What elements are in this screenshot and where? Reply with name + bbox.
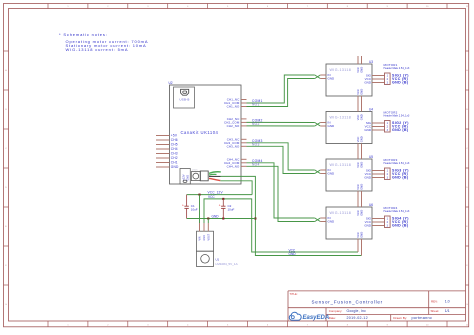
svg-text:NO4: NO4 bbox=[252, 163, 260, 167]
svg-text:VCC_12V: VCC_12V bbox=[208, 190, 224, 194]
svg-text:GND: GND bbox=[359, 232, 363, 238]
svg-text:VCC: VCC bbox=[356, 184, 360, 190]
svg-text:VCC: VCC bbox=[356, 232, 360, 238]
svg-text:+: + bbox=[219, 204, 221, 208]
svg-text:CH3_NO: CH3_NO bbox=[227, 144, 240, 148]
svg-text:2019-02-12: 2019-02-12 bbox=[347, 316, 368, 320]
svg-text:VCC: VCC bbox=[356, 115, 360, 121]
wire NO1 bbox=[247, 79, 315, 107]
svg-text:VCC: VCC bbox=[356, 137, 360, 143]
svg-text:Sensor_Fusion_Controller: Sensor_Fusion_Controller bbox=[312, 299, 383, 304]
svg-text:Header Male 2.54_1x3: Header Male 2.54_1x3 bbox=[384, 66, 410, 70]
svg-text:CH3: CH3 bbox=[171, 152, 178, 156]
svg-text:G: G bbox=[5, 304, 7, 306]
svg-text:GND (B): GND (B) bbox=[392, 224, 409, 228]
wire NO3 bbox=[247, 146, 315, 173]
svg-text:TITLE:: TITLE: bbox=[290, 292, 298, 296]
svg-text:Header Male 2.54_1x3: Header Male 2.54_1x3 bbox=[384, 114, 410, 118]
svg-text:Header Male 2.54_1x3: Header Male 2.54_1x3 bbox=[384, 161, 410, 165]
svg-text:CH4_NO: CH4_NO bbox=[227, 164, 240, 168]
svg-text:EasyEDA: EasyEDA bbox=[303, 315, 330, 321]
svg-text:WIG-13118: WIG-13118 bbox=[330, 116, 352, 120]
svg-text:USB-B: USB-B bbox=[179, 98, 189, 102]
svg-text:NO3: NO3 bbox=[252, 143, 260, 147]
relay board U2 body bbox=[170, 85, 242, 184]
svg-text:REV:: REV: bbox=[431, 300, 438, 304]
svg-text:Google, Inc: Google, Inc bbox=[347, 309, 367, 313]
svg-text:NO2: NO2 bbox=[252, 122, 260, 126]
power chain wires between modules bbox=[358, 96, 362, 207]
svg-text:CH4: CH4 bbox=[171, 147, 178, 151]
svg-text:GND: GND bbox=[359, 67, 363, 73]
wire COM3 bbox=[247, 143, 315, 170]
driver module U6 body bbox=[326, 207, 372, 239]
svg-text:GND: GND bbox=[289, 252, 297, 256]
svg-text:GND: GND bbox=[359, 136, 363, 142]
svg-text:Sheet:: Sheet: bbox=[431, 309, 440, 313]
svg-text:GND: GND bbox=[364, 128, 372, 132]
wire net labels COM/NO bbox=[252, 99, 263, 166]
terminal wire CH2 (green lead) bbox=[209, 173, 217, 176]
U6 input pin cross bbox=[315, 218, 326, 222]
svg-text:GND: GND bbox=[328, 77, 336, 81]
svg-text:U6: U6 bbox=[369, 203, 373, 207]
U5 output pins to header bbox=[372, 171, 385, 178]
svg-text:WIG-13118: WIG-13118 bbox=[330, 211, 352, 215]
wire VCC rail bbox=[204, 199, 358, 252]
wire GND rail bbox=[187, 218, 256, 220]
U4 input pin cross bbox=[315, 123, 326, 127]
capacitor C1 bbox=[182, 195, 189, 219]
wire COM1 bbox=[247, 75, 315, 103]
svg-text:GND: GND bbox=[203, 235, 206, 241]
capacitor C2 bbox=[219, 199, 226, 219]
U6 output pin labels bbox=[364, 217, 372, 228]
svg-text:* Schematic notes:: * Schematic notes: bbox=[59, 32, 108, 37]
svg-text:GND: GND bbox=[359, 89, 363, 95]
svg-text:1.0: 1.0 bbox=[445, 300, 450, 304]
U2 terminal block bbox=[191, 171, 208, 181]
svg-text:WIG-13118: WIG-13118 bbox=[330, 68, 352, 72]
svg-text:portmannc: portmannc bbox=[412, 316, 433, 320]
wire COM2 bbox=[247, 121, 315, 123]
svg-text:GND: GND bbox=[364, 81, 372, 85]
U2 left pin labels bbox=[171, 134, 179, 170]
svg-text:VCC: VCC bbox=[356, 162, 360, 168]
U5 bottom power pin labels bbox=[356, 184, 364, 190]
U3 input pin cross bbox=[315, 75, 326, 79]
svg-text:GND: GND bbox=[359, 184, 363, 190]
svg-text:VCC: VCC bbox=[356, 89, 360, 95]
U5 top power pin labels bbox=[356, 162, 364, 168]
svg-text:GND: GND bbox=[212, 214, 220, 218]
svg-text:VOUT: VOUT bbox=[207, 233, 210, 240]
junction GND at C2 bbox=[222, 217, 224, 219]
svg-text:GND: GND bbox=[359, 210, 363, 216]
svg-text:GND: GND bbox=[359, 114, 363, 120]
svg-text:1/1: 1/1 bbox=[445, 309, 450, 313]
svg-text:CH1_NO: CH1_NO bbox=[227, 105, 240, 109]
svg-text:LM1084_5V_1A: LM1084_5V_1A bbox=[216, 262, 239, 266]
svg-text:U4: U4 bbox=[369, 108, 373, 112]
U2 right pin labels bbox=[224, 98, 240, 169]
terminal wire +12V (red lead) bbox=[209, 178, 220, 180]
svg-text:WIG-13118: WIG-13118 bbox=[330, 163, 352, 167]
U3 output pins to header bbox=[372, 76, 385, 83]
svg-text:CH6: CH6 bbox=[171, 138, 178, 142]
U2 right relay pins bbox=[241, 100, 247, 167]
svg-text:12VDC: 12VDC bbox=[192, 169, 199, 171]
U6 bottom power stubs to VCC GND bbox=[358, 239, 362, 256]
svg-text:GND: GND bbox=[328, 220, 336, 224]
svg-text:WIG-13118 current: 5mA: WIG-13118 current: 5mA bbox=[66, 47, 129, 52]
schematic notes text bbox=[59, 32, 148, 52]
svg-text:GND: GND bbox=[364, 224, 372, 228]
U4 top power pin labels bbox=[356, 114, 364, 120]
MOTOR3 pin numbers bbox=[387, 170, 389, 180]
svg-text:Header Male 2.54_1x3: Header Male 2.54_1x3 bbox=[384, 209, 410, 213]
junction VCC at C2 bbox=[222, 198, 224, 200]
svg-text:Drawn By:: Drawn By: bbox=[393, 316, 407, 320]
U2 DC power jack bbox=[180, 169, 190, 185]
DC jack pin labels bbox=[182, 174, 190, 180]
terminal wire GND (black lead) bbox=[209, 175, 221, 177]
wire U1 GND stub bbox=[207, 219, 209, 224]
USB-B icon bbox=[181, 89, 189, 95]
svg-text:G: G bbox=[466, 304, 468, 306]
junction VCC_12V at VIN bbox=[198, 194, 200, 196]
svg-text:Company:: Company: bbox=[329, 309, 343, 313]
driver module U4 body bbox=[326, 112, 372, 144]
svg-text:VCC: VCC bbox=[356, 67, 360, 73]
svg-text:+12V: +12V bbox=[182, 174, 186, 180]
svg-text:Date:: Date: bbox=[329, 316, 336, 320]
junction GND at U1 bbox=[207, 217, 209, 219]
MOTOR2 pin numbers bbox=[387, 122, 389, 132]
header MOTOR4 bbox=[385, 216, 391, 228]
svg-text:10uF: 10uF bbox=[191, 208, 198, 212]
svg-text:GND: GND bbox=[186, 175, 190, 181]
U6 top power pin labels bbox=[356, 210, 364, 216]
wire +12V from U2 red lead bbox=[220, 181, 252, 195]
U6 bottom power pin labels bbox=[356, 232, 364, 238]
svg-text:VCC: VCC bbox=[356, 210, 360, 216]
U3 output pin labels bbox=[364, 74, 372, 85]
U5 input pin cross bbox=[315, 170, 326, 174]
junction GND rail bbox=[254, 217, 256, 219]
U4 output pin labels bbox=[364, 121, 372, 132]
svg-text:GND: GND bbox=[328, 124, 336, 128]
svg-text:GND: GND bbox=[364, 176, 372, 180]
svg-text:GND: GND bbox=[171, 165, 179, 169]
svg-text:VIN: VIN bbox=[199, 236, 202, 240]
driver module U5 body bbox=[326, 159, 372, 191]
driver module U3 body bbox=[326, 64, 372, 96]
svg-text:U2: U2 bbox=[169, 81, 173, 85]
svg-text:VCC: VCC bbox=[208, 195, 215, 199]
wire VIN vertical bbox=[199, 195, 201, 223]
U3 bottom power pin labels bbox=[356, 89, 364, 95]
svg-text:GND (B): GND (B) bbox=[392, 128, 409, 132]
header MOTOR1 bbox=[385, 73, 391, 85]
svg-text:10uF: 10uF bbox=[228, 208, 235, 212]
svg-text:CH1: CH1 bbox=[171, 161, 178, 165]
svg-text:CH5: CH5 bbox=[171, 143, 178, 147]
U5 output pin labels bbox=[364, 169, 372, 180]
svg-text:GND: GND bbox=[359, 162, 363, 168]
svg-text:U5: U5 bbox=[369, 155, 373, 159]
U1 pins bbox=[200, 223, 209, 231]
U6 output pins to header bbox=[372, 219, 385, 226]
svg-text:CH2: CH2 bbox=[171, 156, 178, 160]
svg-text:U3: U3 bbox=[369, 60, 373, 64]
wire COM4 bbox=[247, 163, 315, 218]
U3 top free power stubs bbox=[358, 56, 362, 64]
wire NO4 bbox=[247, 166, 315, 221]
U4 output pins to header bbox=[372, 123, 385, 130]
svg-text:+: + bbox=[182, 204, 184, 208]
U1 pin labels bbox=[199, 233, 211, 240]
header MOTOR2 bbox=[385, 121, 391, 133]
title block frame bbox=[288, 291, 466, 321]
wire NO2 bbox=[247, 125, 315, 127]
U4 bottom power pin labels bbox=[356, 136, 364, 142]
wire VCC_12V rail bbox=[187, 194, 253, 196]
svg-text:GND: GND bbox=[328, 172, 336, 176]
terminal wire CH (green lead) bbox=[209, 172, 221, 174]
U3 top power pin labels bbox=[356, 67, 364, 73]
wire GND net from U2 black lead bbox=[221, 176, 362, 255]
EasyEDA logo bbox=[289, 312, 329, 321]
svg-text:GND (B): GND (B) bbox=[392, 176, 409, 180]
USB-B connector box bbox=[174, 87, 195, 108]
svg-text:GND (B): GND (B) bbox=[392, 81, 409, 85]
svg-text:+5V: +5V bbox=[171, 134, 178, 138]
svg-text:CH2_NO: CH2_NO bbox=[227, 124, 240, 128]
U2 left pins bbox=[156, 136, 170, 168]
MOTOR1 pin numbers bbox=[387, 75, 389, 85]
regulator U1 body bbox=[197, 231, 214, 266]
svg-text:CanaKit UK1104: CanaKit UK1104 bbox=[181, 130, 219, 135]
header MOTOR3 bbox=[385, 168, 391, 180]
MOTOR4 pin numbers bbox=[387, 218, 389, 228]
svg-text:NO1: NO1 bbox=[252, 103, 260, 107]
